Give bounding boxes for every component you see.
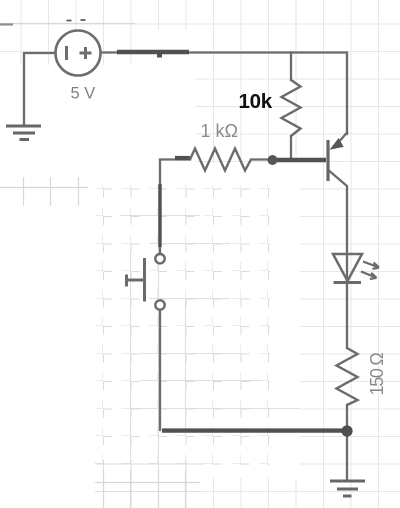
svg-text:5 V: 5 V <box>71 85 96 103</box>
svg-text:1 kΩ: 1 kΩ <box>201 121 238 141</box>
svg-text:150 Ω: 150 Ω <box>367 353 387 396</box>
svg-text:10k: 10k <box>239 90 273 113</box>
